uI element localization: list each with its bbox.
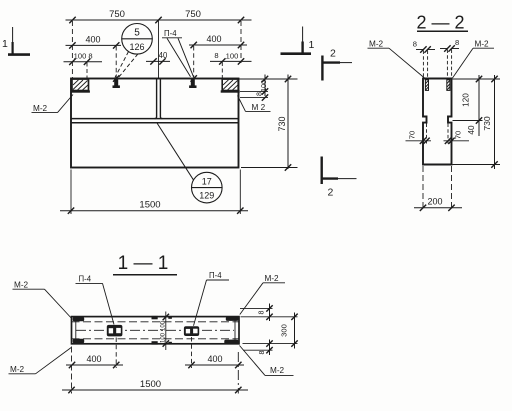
balloon leaders (dashed) to left anchor — [115, 52, 138, 78]
section mark 2 (bottom) — [321, 157, 357, 185]
dimension 100 / 8 left — [64, 61, 103, 63]
svg-text:8: 8 — [257, 311, 266, 315]
extension line right edge — [240, 21, 242, 63]
embedded plate M-2 right (hatched) — [221, 79, 240, 92]
anchor stud P-4 left (T shape) — [113, 79, 120, 88]
embedded plate M-2 left (hatched) — [71, 79, 90, 92]
dimension 400 right — [189, 44, 247, 46]
svg-text:120: 120 — [462, 93, 471, 107]
inner hidden line bottom (dashed) — [72, 338, 240, 340]
svg-text:126: 126 — [129, 42, 144, 52]
corner plate M-2 bottom-left — [73, 339, 85, 343]
section mark 1 (right) — [281, 27, 312, 54]
svg-text:17: 17 — [202, 177, 212, 187]
balloon 5/126 — [122, 24, 153, 55]
svg-text:М-2: М-2 — [270, 366, 285, 375]
svg-text:8: 8 — [455, 38, 459, 47]
extension lines for 1500 — [70, 170, 72, 215]
svg-text:40: 40 — [159, 51, 168, 60]
svg-text:70: 70 — [408, 131, 417, 139]
section mark 2 (top) — [322, 56, 353, 81]
right-side small dim 8 (plate lip) — [240, 97, 268, 99]
svg-text:100: 100 — [161, 332, 167, 343]
dimension 730 right of elevation — [287, 75, 289, 170]
svg-text:М-2: М-2 — [10, 365, 25, 374]
svg-text:100: 100 — [259, 80, 268, 92]
dim 730 (section height) — [494, 75, 496, 169]
svg-text:1: 1 — [309, 39, 315, 51]
right-side small dims of elevation: 100 plate height — [239, 78, 298, 80]
svg-text:400: 400 — [206, 34, 221, 44]
center joint left line — [155, 79, 157, 119]
right-side dims of 1-1: 8 top — [240, 307, 273, 309]
extension (dashed) from 400 tick down to right anchor — [193, 46, 195, 78]
svg-text:730: 730 — [277, 116, 287, 131]
svg-text:П-4: П-4 — [209, 271, 222, 280]
svg-text:1500: 1500 — [139, 200, 160, 211]
svg-text:М-2: М-2 — [265, 274, 280, 283]
section mark 1 (left) — [8, 27, 30, 55]
P-4 leader lines to right anchor — [167, 38, 194, 77]
svg-text:100: 100 — [161, 320, 167, 331]
svg-text:1500: 1500 — [140, 379, 161, 390]
svg-text:8: 8 — [214, 51, 218, 60]
svg-text:129: 129 — [199, 191, 214, 201]
svg-text:М-2: М-2 — [33, 104, 48, 113]
svg-text:400: 400 — [207, 354, 222, 364]
center joint line (1-1) — [165, 312, 167, 351]
dim 300 (1-1 width) — [294, 313, 296, 349]
svg-text:400: 400 — [86, 354, 101, 364]
P-4 anchor loop left (plan) — [107, 325, 123, 337]
dimension 40 center — [146, 60, 170, 62]
center axis extension up to dims — [158, 20, 160, 79]
svg-text:100: 100 — [74, 52, 87, 61]
bottom extension for 730 — [241, 167, 298, 169]
svg-text:750: 750 — [109, 9, 125, 20]
anchor stud P-4 right (T shape) — [189, 79, 196, 88]
dimension 1500 below elevation — [60, 210, 248, 212]
svg-text:М 2: М 2 — [252, 103, 266, 112]
section 1-1 outline — [72, 317, 240, 344]
svg-text:750: 750 — [185, 9, 201, 20]
svg-text:П-4: П-4 — [164, 29, 177, 38]
P-4 anchor loop right (plan) — [184, 326, 199, 336]
svg-text:5: 5 — [134, 28, 140, 39]
anchor bar left (in section) — [425, 80, 428, 91]
dim 200 bottom (section 2-2) — [422, 166, 424, 211]
svg-text:1 — 1: 1 — 1 — [118, 253, 169, 274]
dim 120 (top to notch) — [453, 78, 501, 80]
anchor bar right (in section) — [447, 80, 450, 91]
svg-text:2: 2 — [328, 187, 334, 199]
center axis (dash-dot) — [76, 329, 234, 331]
svg-text:8: 8 — [257, 351, 266, 355]
svg-text:200: 200 — [427, 197, 442, 207]
inner horizontal line upper — [71, 118, 239, 120]
center joint right line — [160, 79, 162, 119]
svg-text:300: 300 — [280, 324, 289, 337]
svg-text:40: 40 — [467, 125, 476, 135]
dim 400 right (1-1) — [185, 364, 244, 366]
svg-text:100: 100 — [226, 51, 239, 60]
balloon 17/129 — [192, 172, 223, 203]
inner hidden line top (dashed) — [72, 321, 240, 323]
extension line left edge (dashed) — [71, 21, 73, 78]
svg-text:8: 8 — [88, 52, 92, 61]
inner horizontal line lower — [71, 122, 239, 124]
corner plate M-2 bottom-right — [224, 340, 238, 345]
svg-text:1: 1 — [2, 38, 8, 50]
svg-text:М-2: М-2 — [475, 40, 490, 49]
svg-text:М-2: М-2 — [369, 40, 384, 49]
svg-text:2 — 2: 2 — 2 — [416, 13, 464, 33]
section 2-2 outline with side notches — [423, 79, 452, 165]
right-side dims of 1-1: 8 bottom — [243, 349, 273, 351]
svg-text:М-2: М-2 — [14, 281, 29, 290]
inner end lines — [75, 317, 77, 344]
corner plate M-2 top-right — [226, 317, 239, 321]
svg-text:2: 2 — [330, 48, 336, 60]
dim 400 left (1-1) — [66, 364, 123, 366]
dimension 750+750 top — [66, 19, 252, 21]
elevation body outline — [71, 79, 239, 168]
dim 40 (notch height) — [478, 124, 480, 136]
edge ticks at anchor droplines — [113, 75, 119, 81]
dim 1500 (1-1) — [62, 389, 248, 391]
extension (dashed) plate inner edge — [86, 63, 88, 79]
svg-text:400: 400 — [85, 35, 100, 45]
svg-text:П-4: П-4 — [79, 275, 92, 284]
dimension 400 left — [66, 44, 122, 46]
extension (dashed) right plate inner edge — [221, 62, 223, 79]
joint tabs on edges — [152, 316, 158, 319]
extension (dashed) from 400 tick down to anchor — [115, 46, 117, 78]
svg-text:730: 730 — [482, 116, 492, 131]
corner plate M-2 top-left — [73, 317, 85, 321]
svg-text:8: 8 — [413, 40, 417, 49]
dimension 8 / 100 right — [210, 60, 252, 62]
svg-text:8: 8 — [255, 92, 264, 96]
leader from body to balloon — [157, 123, 194, 180]
